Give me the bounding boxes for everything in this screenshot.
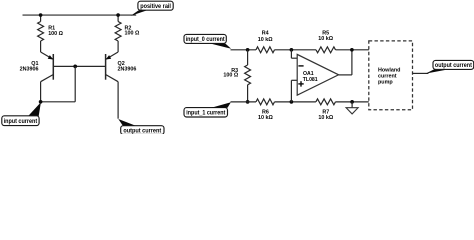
svg-text:10 kΩ: 10 kΩ [258,37,273,43]
svg-text:pump: pump [378,80,393,86]
svg-text:input current: input current [4,119,38,125]
svg-text:10 kΩ: 10 kΩ [318,115,333,121]
svg-text:10 kΩ: 10 kΩ [258,115,273,121]
svg-text:output current: output current [123,128,161,134]
svg-text:input_1 current: input_1 current [186,110,225,116]
svg-text:R4: R4 [262,31,269,37]
svg-text:2N3906: 2N3906 [118,66,137,72]
svg-text:TL081: TL081 [303,77,318,83]
svg-text:100 Ω: 100 Ω [48,31,63,37]
svg-text:10 kΩ: 10 kΩ [318,36,333,42]
svg-text:100 Ω: 100 Ω [223,73,238,79]
svg-text:100 Ω: 100 Ω [125,31,140,37]
svg-text:input_0 current: input_0 current [186,37,225,43]
svg-text:positive rail: positive rail [140,4,171,10]
svg-text:2N3906: 2N3906 [20,66,39,72]
svg-text:output current: output current [435,63,472,69]
